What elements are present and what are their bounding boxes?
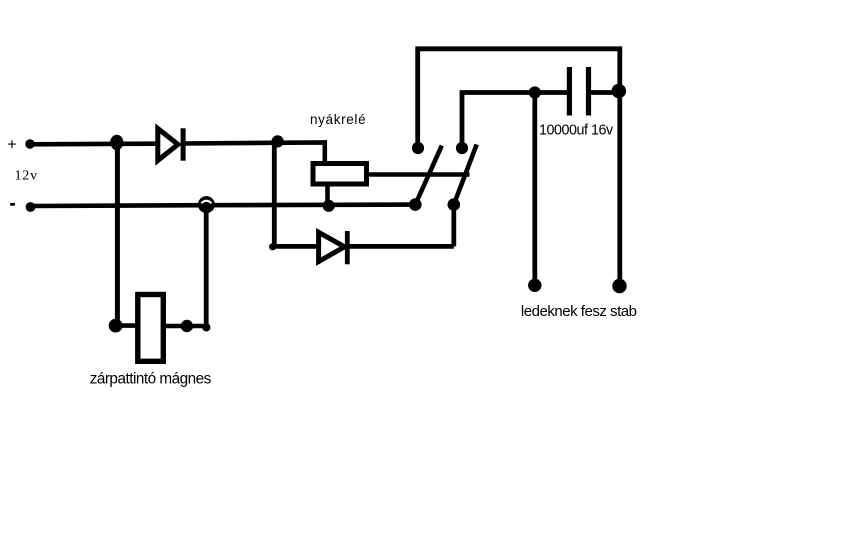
node: solenoid left junction — [109, 319, 123, 333]
node: end nub of vertical at solenoid lead — [202, 323, 210, 331]
wire: left vertical from + node down to solenoid — [115, 143, 120, 326]
node: + rail / left vertical junction — [110, 135, 123, 150]
relay K1 coil rectangle — [313, 164, 367, 185]
node: left switch fixed contact — [412, 142, 424, 154]
diode D2 triangle — [319, 232, 345, 261]
wire: vertical from + rail node down to bottom diode wire — [272, 143, 277, 246]
wire: bottom freewheel loop right segment — [348, 244, 454, 249]
node: right switch fixed contact — [456, 142, 468, 154]
svg-text:12v: 12v — [15, 169, 38, 184]
wire: top loop (left switch contact up, across top, down right side) — [418, 49, 620, 286]
wire: second switch contact up to capacitor wire — [462, 93, 567, 149]
diode D1 cathode bar — [181, 128, 186, 160]
wire: solenoid left lead — [116, 323, 137, 328]
svg-text:zárpattintó mágnes: zárpattintó mágnes — [90, 370, 212, 387]
node: + rail / vertical B junction — [272, 135, 284, 147]
node ring white window arc — [201, 201, 211, 203]
diode D1 triangle — [158, 129, 178, 161]
node: bottom-left corner blob — [269, 243, 276, 250]
diode D2 cathode bar — [345, 231, 350, 264]
svg-text:nyákrelé: nyákrelé — [310, 112, 366, 127]
wire: relay coil bottom lead to - rail — [325, 185, 330, 206]
capacitor C1 right plate — [586, 67, 591, 116]
switch blade right — [454, 144, 477, 204]
node: right switch pivot — [448, 198, 461, 211]
node: capacitor wire junction — [529, 86, 541, 98]
wire: + rail from terminal to relay branch — [30, 141, 156, 146]
svg-text:ledeknek fesz stab: ledeknek fesz stab — [521, 303, 637, 320]
wire: solenoid right lead — [164, 324, 207, 329]
node ring on - rail — [198, 196, 215, 213]
node: solenoid right junction — [181, 320, 193, 332]
node: + terminal dot — [25, 139, 34, 148]
node: output terminal right — [612, 279, 626, 293]
label: - terminal — [10, 203, 15, 206]
node: left switch pivot on - rail — [409, 198, 422, 211]
wire: right switch contact down to bottom diode wire — [451, 205, 456, 247]
solenoid coil rectangle — [138, 295, 164, 362]
wire: capacitor right lead — [591, 90, 618, 95]
node: output terminal left — [528, 279, 541, 292]
capacitor C1 left plate — [567, 67, 572, 116]
wire: + rail right of diode D1, turning down to relay coil top — [181, 142, 325, 163]
node: relay coil on - rail — [323, 200, 335, 212]
wire: bottom freewheel loop left segment — [274, 244, 317, 249]
wire: - rail — [31, 205, 416, 206]
wire: relay output lead to switch blades — [369, 172, 470, 177]
svg-text:+: + — [7, 136, 16, 153]
node: - terminal dot — [26, 202, 36, 212]
svg-text:10000uf 16v: 10000uf 16v — [539, 122, 614, 138]
wire: vertical from - rail ring down to solenoid right lead — [204, 210, 209, 328]
switch blade left — [415, 146, 442, 205]
wire: vertical from capacitor node down to left output terminal — [532, 93, 537, 286]
node: capacitor right lead junction — [612, 84, 627, 99]
